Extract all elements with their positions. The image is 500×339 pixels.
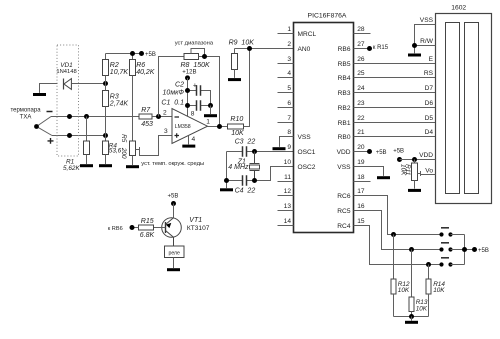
thermocouple TXA symbol <box>34 112 53 144</box>
svg-text:1602: 1602 <box>451 5 466 12</box>
wire: op-amp output <box>208 126 228 128</box>
+5V rail top left <box>106 51 156 58</box>
svg-text:C1 0.1: C1 0.1 <box>161 99 184 106</box>
svg-text:RS: RS <box>424 70 434 77</box>
svg-text:R6: R6 <box>136 62 145 69</box>
svg-text:термопара: термопара <box>10 108 41 114</box>
svg-text:LM358: LM358 <box>175 124 191 130</box>
svg-text:4: 4 <box>287 70 291 77</box>
svg-text:+: + <box>193 83 197 90</box>
svg-text:4 MHz: 4 MHz <box>228 164 249 171</box>
pin 13 stub <box>278 203 294 210</box>
svg-text:VDD: VDD <box>419 152 433 159</box>
pin 28 stub <box>354 26 371 33</box>
svg-text:1N4148: 1N4148 <box>56 69 76 75</box>
ground (R9) <box>228 78 241 81</box>
pin 20 VDD +5V <box>354 144 387 156</box>
potentiometer R8 150K <box>159 49 220 127</box>
node: C4 ground tie <box>224 178 229 183</box>
node: OSC1/crystal <box>252 149 257 154</box>
svg-text:10K: 10K <box>398 287 410 294</box>
node: ground bus <box>409 314 414 319</box>
ground (R11) <box>408 189 421 192</box>
ground (C1/C2) <box>204 106 217 118</box>
svg-text:3: 3 <box>164 128 168 135</box>
transistor VT1 KT3107 <box>154 217 210 246</box>
capacitor C4 22 <box>227 167 294 195</box>
pin 4 stub <box>278 70 294 77</box>
node on minus line inside box <box>67 114 72 119</box>
pin 1 stub <box>278 26 294 33</box>
resistor R4 53,6 <box>103 136 122 165</box>
svg-text:19: 19 <box>357 159 365 166</box>
svg-text:R15: R15 <box>141 218 154 225</box>
svg-text:17: 17 <box>357 188 365 195</box>
svg-text:RB4: RB4 <box>338 75 351 82</box>
svg-text:VSS: VSS <box>420 17 434 24</box>
svg-text:2: 2 <box>287 41 291 48</box>
svg-text:13: 13 <box>284 203 292 210</box>
svg-text:D7: D7 <box>425 85 434 92</box>
ground (buttons) <box>405 317 418 324</box>
svg-text:OSC1: OSC1 <box>298 149 316 156</box>
resistor R13 10K <box>409 250 428 317</box>
ground (diode anode side) <box>33 84 58 97</box>
svg-text:C2: C2 <box>175 81 184 88</box>
node: R3/R4 junction on plus line <box>103 133 108 138</box>
svg-text:к R15: к R15 <box>373 45 389 51</box>
node: R13 tap <box>409 247 414 252</box>
svg-text:VSS: VSS <box>337 164 351 171</box>
svg-text:8: 8 <box>287 129 291 136</box>
svg-text:C4 22: C4 22 <box>235 187 256 194</box>
+5V terminal for transistor <box>168 194 179 218</box>
node: AN0 divider <box>247 46 252 51</box>
svg-text:D5: D5 <box>425 115 434 122</box>
pin 6 stub <box>278 100 294 107</box>
relay coil box <box>165 246 185 268</box>
svg-text:23: 23 <box>357 100 365 107</box>
svg-text:ТХА: ТХА <box>20 115 32 121</box>
node: C1 tap <box>185 103 190 108</box>
push button SB1 <box>439 228 464 237</box>
resistor R2 10,7K <box>103 54 129 84</box>
svg-text:5: 5 <box>287 85 291 92</box>
pin 7 stub <box>278 115 294 122</box>
svg-text:R/W: R/W <box>420 38 434 45</box>
svg-text:MRCL: MRCL <box>298 31 317 38</box>
crystal Z1 4MHz <box>228 152 259 181</box>
svg-text:11: 11 <box>284 174 291 181</box>
svg-text:+5В: +5В <box>145 52 156 58</box>
LCD pin labels <box>419 17 434 174</box>
svg-text:+5В: +5В <box>376 150 387 156</box>
svg-text:2,74K: 2,74K <box>109 101 129 108</box>
svg-text:R2: R2 <box>110 62 119 69</box>
svg-text:453: 453 <box>141 121 153 128</box>
ground (R4) <box>99 164 112 167</box>
resistor R15 6.8K <box>132 218 155 239</box>
svg-text:VD1: VD1 <box>60 62 73 69</box>
svg-text:22: 22 <box>357 115 365 122</box>
push button SB2 <box>439 243 464 252</box>
resistor R6 40,2K <box>130 54 155 142</box>
node: C1/C2 ground tie <box>208 103 213 108</box>
node: R8 right end <box>202 54 207 59</box>
capacitor C2 10uF <box>163 81 211 105</box>
ground (pin 19) <box>377 176 390 179</box>
svg-text:+5В: +5В <box>478 248 489 254</box>
pin 3 stub <box>278 56 294 63</box>
wire: buttons common to +5V <box>462 235 489 265</box>
wire: thermocouple minus line to R7 <box>51 116 139 118</box>
wire: pulldown ground bus <box>394 316 429 318</box>
svg-text:E: E <box>429 56 434 63</box>
svg-text:2: 2 <box>163 109 167 116</box>
LCD module HG1 1602 <box>436 5 492 204</box>
microcontroller DD1 PIC16F876A <box>294 13 354 233</box>
svg-text:16: 16 <box>357 203 365 210</box>
pin 26 to LCD E <box>354 56 436 63</box>
svg-text:28: 28 <box>357 26 365 33</box>
op-amp pin4 ground <box>182 136 195 148</box>
pin 27 RB6 to R15 <box>354 41 389 51</box>
svg-text:RC5: RC5 <box>337 208 351 215</box>
pin 19 VSS to ground <box>354 159 384 176</box>
svg-text:+5В: +5В <box>393 149 404 155</box>
node: output <box>217 124 222 129</box>
svg-text:10K: 10K <box>433 287 445 294</box>
svg-text:RC6: RC6 <box>337 193 351 200</box>
svg-text:14: 14 <box>284 218 292 225</box>
pin 21 to LCD D4 <box>354 129 436 136</box>
node: VSS/RW tie <box>412 43 417 48</box>
svg-text:5,62K: 5,62K <box>63 165 80 172</box>
wire: thermocouple plus line to R3/R4 junction <box>52 135 106 137</box>
svg-text:Vo: Vo <box>425 167 433 174</box>
svg-text:10мкФ: 10мкФ <box>163 90 185 97</box>
pin 5 stub <box>278 85 294 92</box>
svg-text:реле: реле <box>168 250 180 256</box>
svg-text:RB2: RB2 <box>338 105 351 112</box>
wire: C3/C4 common leg <box>226 152 228 189</box>
svg-text:КТ3107: КТ3107 <box>187 225 210 232</box>
node on plus line inside box <box>67 133 72 138</box>
svg-text:+5В: +5В <box>168 194 179 200</box>
svg-text:AN0: AN0 <box>298 46 311 53</box>
resistor R7 453 <box>139 107 172 128</box>
svg-text:15: 15 <box>357 218 365 225</box>
capacitor C3 22 <box>227 139 294 157</box>
resistor R9 10K <box>229 40 255 78</box>
svg-text:R9 10K: R9 10K <box>229 40 255 47</box>
svg-text:4: 4 <box>192 136 196 143</box>
svg-text:6: 6 <box>287 100 291 107</box>
svg-text:26: 26 <box>357 56 365 63</box>
svg-text:6.8K: 6.8K <box>140 232 155 239</box>
svg-text:8: 8 <box>191 110 195 117</box>
svg-text:+12В: +12В <box>182 70 196 76</box>
pin 24 to LCD D7 <box>354 85 436 92</box>
node: diode/R2/R3 junction <box>103 81 108 86</box>
svg-text:D4: D4 <box>425 129 434 136</box>
svg-text:RB1: RB1 <box>338 120 351 127</box>
svg-text:21: 21 <box>357 129 365 136</box>
svg-text:18: 18 <box>357 174 365 181</box>
node: R1 tap on minus line <box>84 114 89 119</box>
svg-text:VSS: VSS <box>298 134 312 141</box>
svg-text:R10: R10 <box>230 116 243 123</box>
svg-text:7: 7 <box>287 115 291 122</box>
svg-text:10: 10 <box>284 159 292 166</box>
svg-text:200: 200 <box>120 147 127 159</box>
dashed cold-junction box <box>57 45 79 156</box>
pin 18 stub <box>354 174 371 181</box>
+5V terminal for LCD VDD <box>393 149 435 163</box>
svg-text:24: 24 <box>357 85 365 92</box>
svg-text:20: 20 <box>357 144 365 151</box>
svg-text:27: 27 <box>357 41 365 48</box>
svg-text:RC4: RC4 <box>337 223 351 230</box>
node: R11 top tap <box>412 157 417 162</box>
resistor R3 2,74K <box>103 84 129 136</box>
svg-text:10,7K: 10,7K <box>110 69 129 76</box>
pin 12 stub <box>278 188 294 195</box>
svg-text:VT1: VT1 <box>189 217 202 224</box>
node: C2 tap <box>185 88 190 93</box>
thermocouple TXA label <box>10 108 41 121</box>
svg-text:R8 150K: R8 150K <box>181 62 211 69</box>
pin 11 stub <box>278 174 294 181</box>
svg-text:40,2K: 40,2K <box>136 69 155 76</box>
resistor R10 10K <box>228 49 250 137</box>
svg-text:D6: D6 <box>425 100 434 107</box>
svg-text:12: 12 <box>284 188 292 195</box>
wire: AN0 divider line <box>235 48 294 50</box>
pin 25 to LCD RS <box>354 70 436 77</box>
ground (R1) <box>80 164 93 167</box>
svg-text:53,6: 53,6 <box>109 148 122 155</box>
svg-text:25: 25 <box>357 70 365 77</box>
svg-text:VDD: VDD <box>337 149 351 156</box>
svg-text:уст диапазона: уст диапазона <box>175 41 214 47</box>
pin 14 stub <box>278 218 294 225</box>
svg-text:10K: 10K <box>231 130 244 137</box>
svg-text:PIC16F876A: PIC16F876A <box>308 13 347 20</box>
pin 17 RC6 to button SB1 <box>354 188 442 234</box>
ground (relay) <box>167 268 180 271</box>
+12V terminal <box>182 70 196 117</box>
svg-text:10K: 10K <box>416 305 428 312</box>
svg-text:10K: 10K <box>399 164 406 176</box>
push button SB3 <box>439 258 464 267</box>
resistor R12 10K <box>391 235 410 317</box>
resistor R14 10K <box>426 265 445 317</box>
pin 15 RC4 to button SB3 <box>354 218 442 264</box>
pin 23 to LCD D6 <box>354 100 436 107</box>
svg-text:OSC2: OSC2 <box>298 164 316 171</box>
svg-text:R3: R3 <box>110 94 119 101</box>
ground (VSS/RW) <box>408 54 421 57</box>
pin 16 RC5 to button SB2 <box>354 203 442 249</box>
svg-text:1: 1 <box>287 26 291 33</box>
node: OSC2/crystal/C4 <box>252 178 257 183</box>
node: R12 tap <box>391 232 396 237</box>
svg-text:RB6: RB6 <box>338 46 351 53</box>
svg-text:9: 9 <box>287 144 291 151</box>
svg-text:RB0: RB0 <box>338 134 351 141</box>
resistor R1 5,62K <box>63 117 90 172</box>
svg-text:к RB6: к RB6 <box>108 226 123 232</box>
svg-text:RB3: RB3 <box>338 90 351 97</box>
node: op-amp inverting input <box>156 114 161 119</box>
op-amp U1 LM358 <box>163 109 210 144</box>
svg-text:уст. темп. окруж. среды: уст. темп. окруж. среды <box>141 161 204 167</box>
ground (R5) <box>126 165 139 168</box>
potentiometer R5 200 <box>120 134 172 165</box>
capacitor C1 0.1 <box>161 99 210 111</box>
wire: LCD R/W to ground <box>415 46 436 54</box>
wire: LCD VSS to ground <box>415 25 436 46</box>
svg-text:3: 3 <box>287 56 291 63</box>
ground (C3/C4) <box>220 188 233 191</box>
potentiometer R11 10K contrast <box>399 160 435 189</box>
svg-text:C3 22: C3 22 <box>235 139 256 146</box>
svg-text:1: 1 <box>206 118 210 125</box>
pin 22 to LCD D5 <box>354 115 436 122</box>
pin 8 VSS to ground <box>280 129 294 147</box>
svg-text:RB5: RB5 <box>338 61 351 68</box>
terminal: to RB6 <box>108 225 135 232</box>
ground (pin 8) <box>273 147 286 150</box>
node: R14 tap <box>426 262 431 267</box>
svg-text:R5: R5 <box>120 134 127 143</box>
svg-text:R7: R7 <box>141 107 151 114</box>
diode VD1 1N4148 <box>56 62 105 90</box>
